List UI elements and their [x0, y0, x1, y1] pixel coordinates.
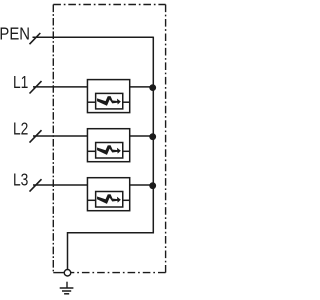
wire L1 (label to arrester): [33, 86, 87, 88]
svg-text:L1: L1: [13, 74, 28, 93]
surge arrester F1 (L1): inner spark-gap box: [96, 93, 123, 109]
enclosure border, right edge: [165, 5, 167, 273]
PEN conductor slash: [30, 33, 41, 44]
surge arrester F2 (L2): left connecting stub: [87, 150, 95, 152]
surge arrester F3 (L3): left connecting stub: [87, 199, 95, 201]
surge arrester F1 (L1): right connecting stub: [123, 101, 130, 103]
PE terminal circle: [64, 270, 71, 277]
surge arrester F2 (L2): inner spark-gap box: [96, 143, 123, 159]
wire L3 (arrester to PE bus): [130, 184, 154, 186]
L3 conductor slash: [30, 179, 42, 191]
L1 conductor slash: [30, 81, 42, 93]
wire L2 (label to arrester): [33, 135, 87, 137]
junction dot L2 / PE bus: [149, 133, 156, 140]
surge arrester F2 (L2): outer box: [87, 129, 129, 162]
surge arrester F1 (L1): lightning-arrow symbol: [97, 96, 121, 106]
junction dot L1 / PE bus: [149, 84, 156, 91]
surge arrester F3 (L3): lightning-arrow symbol: [97, 194, 121, 204]
svg-text:PEN: PEN: [0, 25, 30, 44]
wire PE bus: right vertical, bottom return, down-leg to terminal: [68, 37, 154, 270]
junction dot L3 / PE bus: [149, 182, 156, 189]
enclosure border, bottom edge (left of PE terminal): [53, 272, 64, 274]
enclosure border, bottom edge (right of PE terminal): [71, 272, 166, 274]
svg-text:L2: L2: [13, 120, 28, 139]
ground symbol: [60, 282, 74, 294]
enclosure border (dash-dot device outline), left edge: [52, 5, 54, 273]
surge arrester F3 (L3): right connecting stub: [123, 199, 130, 201]
surge arrester F1 (L1): left connecting stub: [87, 101, 95, 103]
svg-text:L3: L3: [13, 171, 29, 190]
wire PEN: [33, 36, 154, 38]
L2 conductor slash: [30, 130, 42, 142]
surge arrester F1 (L1): outer box: [87, 80, 129, 113]
surge arrester F2 (L2): lightning-arrow symbol: [97, 145, 121, 155]
surge arrester F3 (L3): inner spark-gap box: [96, 192, 123, 208]
surge arrester F3 (L3): outer box: [87, 178, 129, 211]
enclosure border, top edge: [53, 4, 165, 6]
surge arrester F2 (L2): right connecting stub: [123, 150, 130, 152]
wire L2 (arrester to PE bus): [130, 135, 154, 137]
wire L1 (arrester to PE bus): [130, 86, 154, 88]
wire L3 (label to arrester): [33, 184, 87, 186]
